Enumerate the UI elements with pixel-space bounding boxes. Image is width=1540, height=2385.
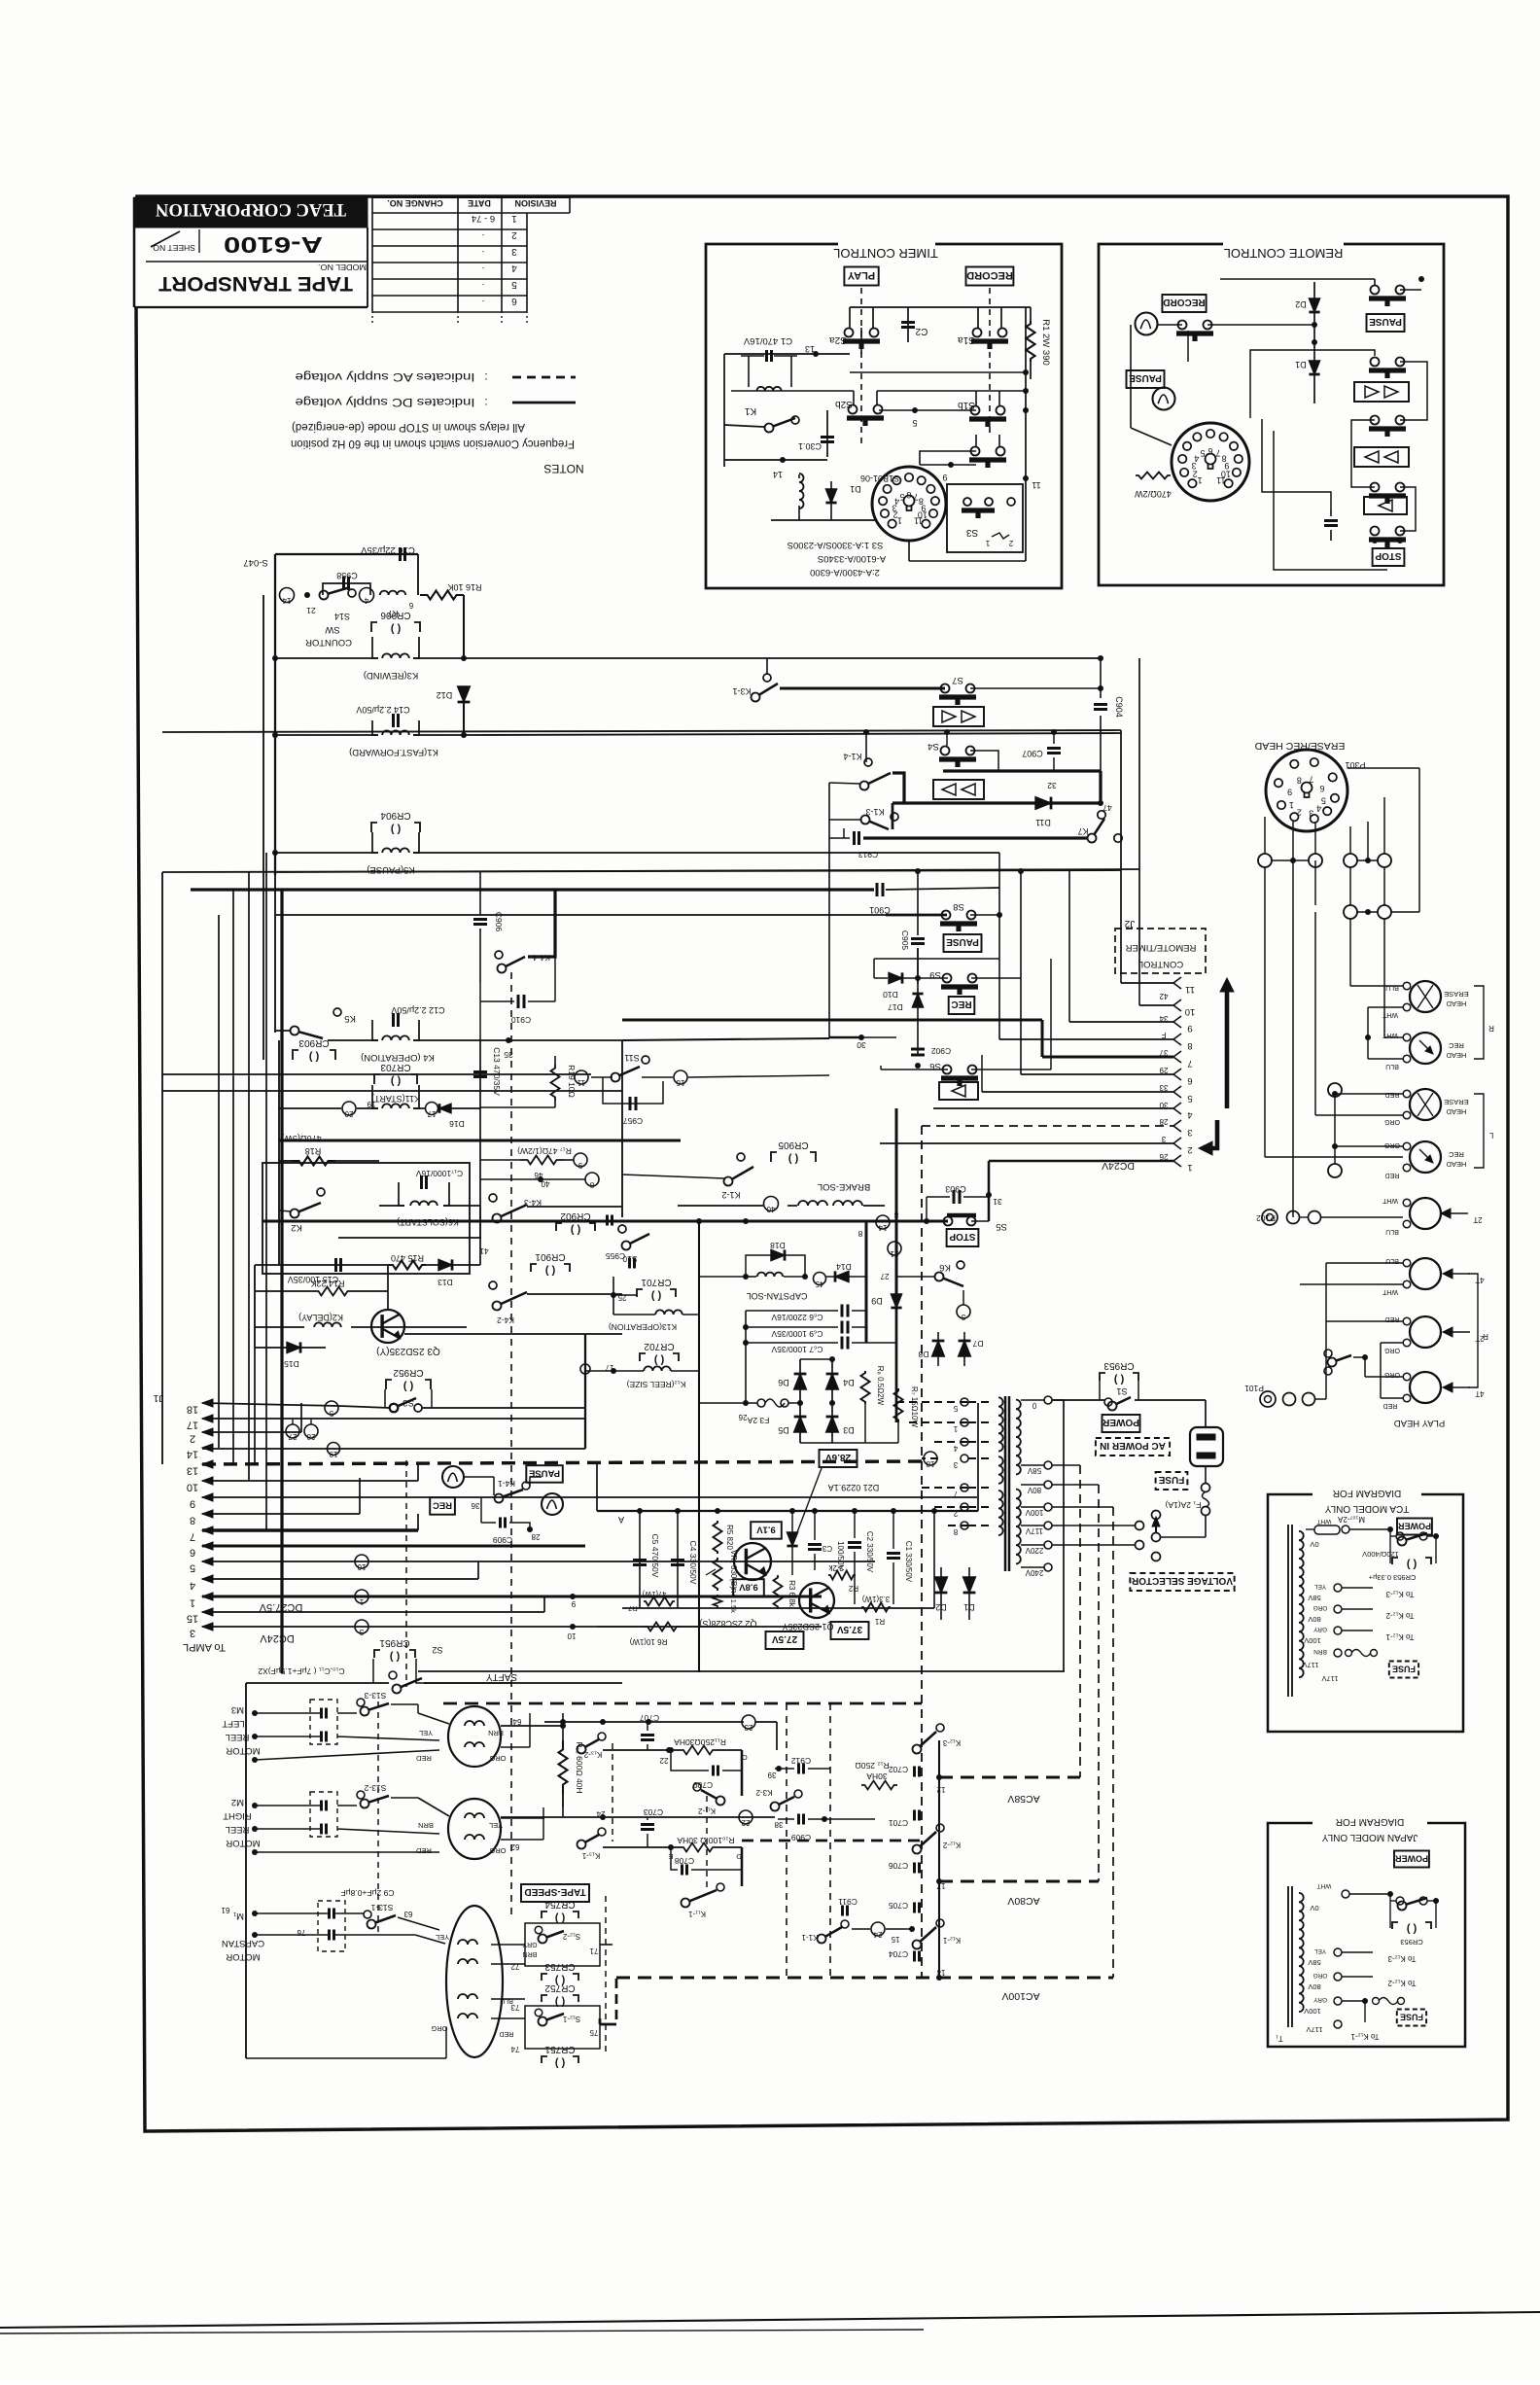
svg-text:CR703: CR703 bbox=[380, 1062, 411, 1072]
svg-text:58V: 58V bbox=[1308, 1958, 1320, 1967]
svg-text:0V: 0V bbox=[1310, 1540, 1318, 1549]
svg-text:D12: D12 bbox=[437, 690, 453, 700]
svg-text:5: 5 bbox=[329, 1409, 333, 1418]
svg-text:240V: 240V bbox=[1025, 1568, 1043, 1577]
svg-text:S1b: S1b bbox=[958, 400, 975, 410]
capacitor C2 bbox=[907, 307, 909, 342]
svg-text:CAPSTAN: CAPSTAN bbox=[222, 1938, 264, 1948]
svg-text:J2: J2 bbox=[1124, 918, 1135, 929]
svg-text:K6: K6 bbox=[939, 1262, 951, 1273]
svg-text:R16 10K: R16 10K bbox=[447, 582, 481, 592]
9.1V box bbox=[751, 1522, 782, 1539]
svg-text:To K₁₂-3: To K₁₂-3 bbox=[1385, 1590, 1414, 1598]
D18 bypass bbox=[771, 1249, 785, 1260]
svg-text:COUNTOR: COUNTOR bbox=[305, 637, 352, 648]
svg-text:C5 470/50V: C5 470/50V bbox=[650, 1534, 660, 1578]
svg-text:3: 3 bbox=[359, 1628, 364, 1636]
R1 3.3(1W) bbox=[861, 1603, 891, 1612]
diode D17 bbox=[912, 994, 923, 1007]
svg-text:REMOTE/TIMER: REMOTE/TIMER bbox=[1125, 942, 1196, 953]
svg-text:MOTOR: MOTOR bbox=[226, 1951, 260, 1962]
diode D1 (remote) bbox=[1313, 342, 1315, 403]
caps column C6 C8 C7 bbox=[841, 1305, 844, 1317]
K11-1 contact bbox=[717, 1883, 724, 1891]
svg-text:28: 28 bbox=[306, 1432, 315, 1441]
row y1122 bbox=[162, 1090, 622, 1092]
C706 bbox=[913, 1863, 916, 1874]
wire y897 bbox=[275, 869, 1139, 872]
svg-text:K₁₂-1: K₁₂-1 bbox=[942, 1936, 961, 1945]
CR703 + K11(START) coil bbox=[374, 1074, 380, 1084]
svg-text:7: 7 bbox=[1187, 1058, 1192, 1069]
svg-text:11: 11 bbox=[1032, 480, 1040, 490]
label fwd-fwd bbox=[1354, 382, 1409, 402]
timer socket bbox=[872, 467, 946, 541]
svg-text:CR904: CR904 bbox=[380, 810, 411, 821]
svg-text:D8: D8 bbox=[918, 1350, 928, 1359]
play head wiring bbox=[1315, 1398, 1326, 1400]
svg-text:D3: D3 bbox=[843, 1425, 855, 1435]
right bus of timer box bbox=[1025, 307, 1027, 561]
K12-1 bbox=[936, 1919, 944, 1927]
svg-text:C1 470/16V: C1 470/16V bbox=[743, 335, 792, 346]
svg-text:45: 45 bbox=[815, 1280, 823, 1288]
label RECORD (remote) bbox=[1162, 295, 1206, 312]
svg-text:9: 9 bbox=[942, 473, 947, 482]
pause lamp bbox=[1153, 388, 1175, 410]
relay coil K3 REWIND with CR906 bbox=[371, 622, 377, 632]
svg-text:DC24V: DC24V bbox=[260, 1632, 295, 1644]
svg-text:3: 3 bbox=[511, 246, 517, 257]
J1 pin 10 bbox=[202, 1477, 213, 1485]
svg-text:( ): ( ) bbox=[390, 1075, 401, 1087]
J1 pin 15 bbox=[202, 1608, 213, 1616]
J1 pin 8 bbox=[202, 1510, 213, 1518]
svg-text:80V: 80V bbox=[1308, 1982, 1320, 1991]
R8 0.5ohm2W bbox=[861, 1371, 870, 1404]
svg-text:80V: 80V bbox=[1308, 1615, 1320, 1624]
svg-text:D1: D1 bbox=[1295, 360, 1307, 369]
27.5V box bbox=[766, 1631, 804, 1649]
svg-text:7: 7 bbox=[1309, 775, 1313, 785]
switch S6 bbox=[943, 1066, 952, 1074]
C955 C956 bbox=[628, 1258, 631, 1269]
svg-text:24: 24 bbox=[873, 1930, 882, 1939]
J1 wires bbox=[202, 1418, 585, 1420]
svg-text:2.2k: 2.2k bbox=[827, 1563, 843, 1572]
svg-text:R6 10(1W): R6 10(1W) bbox=[629, 1637, 667, 1646]
TCA fuse bottom bbox=[1351, 1650, 1371, 1657]
J1 pin 4 bbox=[202, 1575, 213, 1583]
transformer tap 1 bbox=[961, 1419, 968, 1426]
transistor Q3 bbox=[371, 1310, 404, 1343]
AC80V bus bbox=[939, 1880, 1099, 1883]
svg-text:BRN: BRN bbox=[488, 1729, 504, 1737]
svg-text:REC: REC bbox=[1449, 1041, 1464, 1050]
svg-text:.: . bbox=[482, 248, 485, 259]
svg-text:( ): ( ) bbox=[1113, 1374, 1124, 1385]
svg-text:C704: C704 bbox=[889, 1949, 909, 1959]
svg-text:30: 30 bbox=[857, 1040, 866, 1050]
svg-text:27.5V: 27.5V bbox=[772, 1633, 797, 1644]
svg-text:S2: S2 bbox=[432, 1645, 442, 1655]
svg-text:( ): ( ) bbox=[570, 1224, 580, 1236]
svg-text:C708: C708 bbox=[675, 1856, 695, 1866]
S13-2 bbox=[357, 1791, 365, 1799]
label PAUSE left bbox=[1127, 370, 1165, 388]
svg-text:CR903: CR903 bbox=[298, 1037, 330, 1048]
svg-text:10: 10 bbox=[187, 1482, 198, 1493]
svg-text:To K₁₂-1: To K₁₂-1 bbox=[1385, 1632, 1414, 1641]
svg-text:REMOTE CONTROL: REMOTE CONTROL bbox=[1224, 246, 1344, 261]
relay coil K1 FAST.FORWARD bbox=[382, 730, 409, 735]
J2 pin 11 bbox=[1173, 977, 1181, 989]
svg-text:ORG: ORG bbox=[489, 1754, 506, 1763]
J2 pin 2 bbox=[1173, 1138, 1181, 1149]
svg-text:470Ω/2W: 470Ω/2W bbox=[1135, 489, 1172, 499]
svg-text:74: 74 bbox=[510, 2045, 519, 2053]
svg-text:WHT: WHT bbox=[1317, 1518, 1332, 1525]
svg-text:RED: RED bbox=[1385, 1172, 1400, 1178]
svg-text:ORG: ORG bbox=[489, 1846, 506, 1855]
capacitor C907 bbox=[1053, 732, 1055, 744]
DIAGRAM FOR JAPAN MODEL ONLY box bbox=[1268, 1823, 1465, 2047]
right column pushbuttons bbox=[1371, 358, 1380, 367]
K12-2 bbox=[936, 1824, 944, 1832]
svg-text:M₁₀₇-2A: M₁₀₇-2A bbox=[1337, 1515, 1365, 1524]
svg-text:14: 14 bbox=[773, 470, 783, 479]
svg-text:C2 330/50V: C2 330/50V bbox=[865, 1531, 874, 1573]
relay block outline bbox=[262, 1163, 470, 1274]
svg-text:12: 12 bbox=[936, 1785, 945, 1794]
svg-text:DIAGRAM FOR: DIAGRAM FOR bbox=[1336, 1816, 1405, 1827]
svg-text:D7: D7 bbox=[972, 1339, 983, 1349]
svg-text:M2: M2 bbox=[231, 1797, 244, 1807]
DIAGRAM FOR TCA MODEL ONLY box bbox=[1268, 1494, 1463, 1732]
CR952 + S3 safety bbox=[386, 1380, 392, 1389]
svg-text:C709: C709 bbox=[693, 1780, 714, 1790]
svg-text:19: 19 bbox=[367, 1100, 375, 1108]
37.5V box bbox=[831, 1622, 869, 1639]
svg-text:( ): ( ) bbox=[650, 1290, 661, 1302]
svg-text::: : bbox=[484, 370, 487, 384]
dashed vertical x948 bbox=[921, 1126, 923, 1978]
svg-text:K1-2: K1-2 bbox=[721, 1190, 740, 1200]
svg-text:YEL: YEL bbox=[489, 1821, 503, 1830]
node 17 19 bbox=[342, 1102, 356, 1115]
svg-text:120Ω/400V: 120Ω/400V bbox=[1362, 1550, 1399, 1559]
pushbutton S-9 bbox=[971, 447, 980, 456]
svg-text:CR702: CR702 bbox=[644, 1341, 675, 1351]
svg-text:RIGHT: RIGHT bbox=[223, 1810, 252, 1821]
row C y1800 bbox=[603, 1749, 681, 1751]
record pushbutton bbox=[1178, 321, 1187, 330]
svg-text:FUSE: FUSE bbox=[1158, 1474, 1184, 1485]
remote socket bbox=[1172, 423, 1249, 501]
svg-text:D17: D17 bbox=[888, 1002, 903, 1012]
transformer T core bbox=[1004, 1396, 1007, 1571]
svg-text:22: 22 bbox=[741, 1818, 750, 1827]
svg-text:K5: K5 bbox=[344, 1013, 356, 1024]
VOLTAGE SELECTOR label bbox=[1130, 1573, 1234, 1591]
svg-text:C902: C902 bbox=[931, 1046, 952, 1056]
svg-text:S₁₂-2: S₁₂-2 bbox=[562, 1932, 580, 1941]
R brackets bbox=[1474, 986, 1484, 1059]
svg-text:D6: D6 bbox=[778, 1378, 789, 1387]
switch S4 bbox=[941, 747, 950, 755]
svg-text:AC100V: AC100V bbox=[1001, 1990, 1039, 2002]
svg-text:( ): ( ) bbox=[653, 1354, 664, 1366]
wire long row K1FF bbox=[464, 733, 1121, 735]
long rows mid bbox=[162, 870, 1121, 872]
capacitor C709 bbox=[671, 1750, 709, 1771]
svg-text:REEL: REEL bbox=[226, 1824, 250, 1835]
svg-text:BLU: BLU bbox=[1385, 1063, 1399, 1070]
svg-text:C910: C910 bbox=[511, 1015, 532, 1025]
fwd label box bbox=[933, 707, 984, 726]
AC100V bus bbox=[616, 1977, 1113, 1980]
svg-text:( ): ( ) bbox=[1406, 1559, 1417, 1570]
svg-text:28: 28 bbox=[531, 1532, 540, 1541]
svg-text:C904: C904 bbox=[1114, 696, 1124, 718]
28.6V box bbox=[820, 1450, 857, 1467]
svg-text:CR701: CR701 bbox=[641, 1277, 672, 1287]
J2 pin 3 bbox=[1173, 1120, 1181, 1132]
svg-text:SW: SW bbox=[325, 624, 339, 635]
K13(OPERATION) coil + CR701 bbox=[637, 1289, 643, 1297]
secondary tap buses down bbox=[1063, 1400, 1065, 1671]
svg-text:S7: S7 bbox=[952, 675, 963, 685]
play head 4T lower bbox=[1410, 1372, 1441, 1403]
svg-text:6: 6 bbox=[1207, 446, 1212, 456]
svg-text:7: 7 bbox=[190, 1531, 195, 1543]
wires from socket to left bbox=[1347, 767, 1419, 769]
svg-text:2:A-4300/A-6300: 2:A-4300/A-6300 bbox=[810, 567, 880, 578]
REMOTE CONTROL box bbox=[1099, 244, 1444, 585]
lamp (REC indicator) bbox=[442, 1466, 464, 1488]
svg-text:CR953: CR953 bbox=[1103, 1360, 1135, 1371]
svg-text:31: 31 bbox=[993, 1197, 1002, 1207]
diode D11 + wire y826 bbox=[892, 801, 1101, 804]
svg-text:19: 19 bbox=[329, 1450, 337, 1458]
K7 contact right bbox=[1098, 811, 1105, 819]
svg-text:28.6V: 28.6V bbox=[825, 1452, 851, 1462]
J1 pin 3 bbox=[202, 1623, 213, 1631]
svg-text:58V: 58V bbox=[1027, 1466, 1041, 1475]
bottom scan edge lines bbox=[0, 2312, 1540, 2328]
line y1719 bbox=[418, 1670, 1065, 1672]
svg-text:7: 7 bbox=[913, 492, 918, 502]
svg-text:S-047: S-047 bbox=[243, 557, 267, 568]
row y1256 top bbox=[699, 1220, 896, 1222]
AC plug bbox=[1190, 1427, 1223, 1466]
svg-text:S13-2: S13-2 bbox=[364, 1783, 386, 1793]
svg-text:3: 3 bbox=[1161, 1135, 1166, 1143]
svg-text:6: 6 bbox=[1187, 1075, 1192, 1086]
TAPE-SPEED label bbox=[521, 1884, 589, 1902]
svg-text:K₁₂-2: K₁₂-2 bbox=[942, 1841, 961, 1849]
svg-text:4: 4 bbox=[1187, 1109, 1192, 1120]
capacitor C5 470/50V bbox=[639, 1511, 641, 1608]
svg-text:D9: D9 bbox=[871, 1296, 883, 1306]
svg-text:8: 8 bbox=[1187, 1040, 1192, 1051]
svg-text:29: 29 bbox=[1159, 1066, 1168, 1074]
VR1 330(B) bbox=[714, 1558, 722, 1591]
svg-text:C3: C3 bbox=[822, 1544, 832, 1553]
svg-text:14: 14 bbox=[282, 596, 291, 605]
svg-text:9: 9 bbox=[190, 1498, 195, 1510]
svg-text:BLU: BLU bbox=[500, 1997, 513, 2004]
R15 470 + D13 bbox=[389, 1261, 426, 1270]
svg-text:9: 9 bbox=[1287, 787, 1292, 796]
svg-text:.: . bbox=[482, 298, 485, 308]
record lamp bbox=[1136, 313, 1158, 335]
K4-3 contact bbox=[489, 1194, 497, 1202]
dashed stems from PLAY/RECORD bbox=[860, 288, 862, 447]
svg-text:37.5V: 37.5V bbox=[837, 1624, 862, 1634]
svg-text:4T: 4T bbox=[1475, 1389, 1484, 1398]
svg-text:( ): ( ) bbox=[389, 1651, 400, 1663]
svg-text:C907: C907 bbox=[1022, 749, 1043, 758]
svg-text:100V: 100V bbox=[1025, 1508, 1043, 1517]
svg-text:7: 7 bbox=[953, 1490, 958, 1498]
svg-text:M3: M3 bbox=[231, 1704, 244, 1715]
svg-text:C911: C911 bbox=[838, 1897, 857, 1907]
svg-text:4: 4 bbox=[1316, 804, 1321, 814]
head: erase head R bbox=[1410, 981, 1441, 1012]
svg-text:15: 15 bbox=[187, 1613, 198, 1625]
capacitor C13 470/35V bbox=[479, 1040, 481, 1108]
svg-text:F₁ 2A(1A): F₁ 2A(1A) bbox=[1165, 1500, 1201, 1510]
svg-text:HEAD: HEAD bbox=[1446, 1051, 1466, 1060]
svg-text:C2: C2 bbox=[915, 326, 927, 336]
dashed vertical x854 x809 bbox=[829, 1703, 831, 1978]
svg-text:( ): ( ) bbox=[402, 1381, 413, 1392]
svg-text:100V: 100V bbox=[1304, 2007, 1321, 2016]
switch K5 contact bbox=[333, 1008, 341, 1016]
transformer secondary winding bbox=[1016, 1400, 1021, 1475]
svg-text:4T: 4T bbox=[1475, 1276, 1484, 1284]
svg-text:47(1W): 47(1W) bbox=[642, 1590, 666, 1598]
switch S7 bbox=[941, 684, 950, 693]
K6 contact bbox=[957, 1261, 964, 1269]
row y1771 motor feed bbox=[544, 1721, 744, 1723]
speed switch cluster lower: CR752 S12-1 CR751 bbox=[542, 1995, 547, 2002]
TCA POWER bbox=[1397, 1519, 1432, 1535]
relay coil K4 OPERATION bbox=[382, 1035, 409, 1040]
svg-text:K₁₃-1: K₁₃-1 bbox=[581, 1851, 600, 1860]
svg-text:76: 76 bbox=[297, 1928, 305, 1937]
REC label center bbox=[949, 997, 975, 1014]
svg-text:C703: C703 bbox=[644, 1807, 664, 1817]
svg-text:2T: 2T bbox=[1473, 1215, 1482, 1224]
K3-2 contact bbox=[794, 1790, 802, 1798]
svg-text:3: 3 bbox=[1187, 1127, 1192, 1138]
svg-text:POWER: POWER bbox=[1398, 1522, 1432, 1531]
svg-text:S2a: S2a bbox=[829, 334, 847, 345]
svg-text:40: 40 bbox=[541, 1179, 549, 1188]
svg-text:R3 6.8k: R3 6.8k bbox=[787, 1580, 796, 1608]
svg-text:4: 4 bbox=[1194, 454, 1199, 464]
R2 2.2k bbox=[828, 1571, 856, 1580]
svg-text:CR901: CR901 bbox=[535, 1251, 566, 1262]
svg-text:2: 2 bbox=[511, 229, 517, 240]
svg-text:39: 39 bbox=[767, 1771, 776, 1779]
svg-text:K₁₃-2: K₁₃-2 bbox=[583, 1750, 602, 1759]
transformer tap 2 bbox=[961, 1503, 968, 1511]
play head 4T upper bbox=[1410, 1258, 1441, 1289]
svg-text:K5(PAUSE): K5(PAUSE) bbox=[367, 864, 414, 875]
svg-text:REEL: REEL bbox=[226, 1732, 250, 1742]
diode D10 bbox=[874, 977, 888, 979]
svg-text:K1-3: K1-3 bbox=[865, 807, 884, 817]
resistor R19 10ohm bbox=[551, 1065, 560, 1101]
svg-text:( ): ( ) bbox=[308, 1051, 319, 1063]
svg-text:RECORD: RECORD bbox=[966, 269, 1013, 281]
svg-text:11: 11 bbox=[577, 1078, 585, 1087]
label PLAY bbox=[844, 267, 878, 286]
svg-text:6 - 74: 6 - 74 bbox=[472, 213, 495, 224]
svg-text:14: 14 bbox=[187, 1449, 198, 1460]
svg-text:C₁₀,C₁₁ ( 7μF+1.5μF)X2: C₁₀,C₁₁ ( 7μF+1.5μF)X2 bbox=[258, 1666, 345, 1676]
capacitor C909 bbox=[797, 1814, 800, 1825]
C702 bbox=[913, 1767, 916, 1777]
thick wire y793 bbox=[943, 769, 1101, 772]
R7 47(1W) bbox=[644, 1597, 675, 1606]
left block outline wires bbox=[275, 553, 418, 555]
M2 wires bbox=[255, 1805, 321, 1806]
svg-text:63: 63 bbox=[403, 1910, 412, 1918]
svg-text:A: A bbox=[618, 1515, 624, 1525]
svg-text:6: 6 bbox=[190, 1547, 195, 1559]
vertical buses center bbox=[621, 1040, 623, 1217]
svg-text:K3-2: K3-2 bbox=[755, 1788, 772, 1797]
svg-text:K11(START): K11(START) bbox=[371, 1094, 420, 1104]
svg-text:Q3 2SD235(Y): Q3 2SD235(Y) bbox=[376, 1346, 440, 1356]
thick dashed feeder y1752 bbox=[443, 1702, 922, 1705]
J2 pin 8 bbox=[1173, 1034, 1181, 1045]
D7 D8 diodes near transformer bbox=[932, 1341, 945, 1356]
svg-text:R1 2W 390: R1 2W 390 bbox=[1040, 319, 1051, 366]
svg-text:9.1V: 9.1V bbox=[756, 1524, 776, 1534]
svg-text:4: 4 bbox=[190, 1580, 195, 1592]
svg-text:13: 13 bbox=[187, 1465, 198, 1477]
svg-text:TEAC CORPORATION: TEAC CORPORATION bbox=[156, 199, 346, 220]
svg-text:D2: D2 bbox=[1295, 299, 1307, 309]
svg-text:K₁₂(REEL SIZE): K₁₂(REEL SIZE) bbox=[627, 1380, 686, 1389]
J2 wires bbox=[1120, 972, 1122, 983]
switch S1b bbox=[971, 406, 980, 415]
svg-text:13: 13 bbox=[805, 344, 815, 354]
svg-text:DATE: DATE bbox=[468, 198, 491, 208]
K12-3 bbox=[936, 1724, 944, 1732]
transformer tap 4 bbox=[961, 1438, 968, 1446]
TIMER CONTROL box bbox=[706, 244, 1062, 588]
svg-text:S5: S5 bbox=[996, 1221, 1007, 1232]
fuse symbol bbox=[1202, 1484, 1210, 1492]
svg-text:4: 4 bbox=[894, 497, 899, 507]
svg-text:JAPAN MODEL ONLY: JAPAN MODEL ONLY bbox=[1321, 1832, 1417, 1842]
socket pin stubs bbox=[1264, 817, 1266, 854]
transformer tap 58V bbox=[1044, 1461, 1052, 1469]
svg-text:40: 40 bbox=[766, 1205, 775, 1213]
svg-text:R₁₂ 250Ω: R₁₂ 250Ω bbox=[855, 1761, 889, 1771]
page border frame bbox=[136, 196, 1508, 2131]
svg-text:D11: D11 bbox=[1035, 818, 1051, 827]
svg-text:Frequency Conversion switch sh: Frequency Conversion switch shown in the… bbox=[291, 438, 575, 449]
relay switch arm K1 bbox=[765, 424, 774, 433]
resistor R17 row bbox=[520, 1156, 564, 1165]
